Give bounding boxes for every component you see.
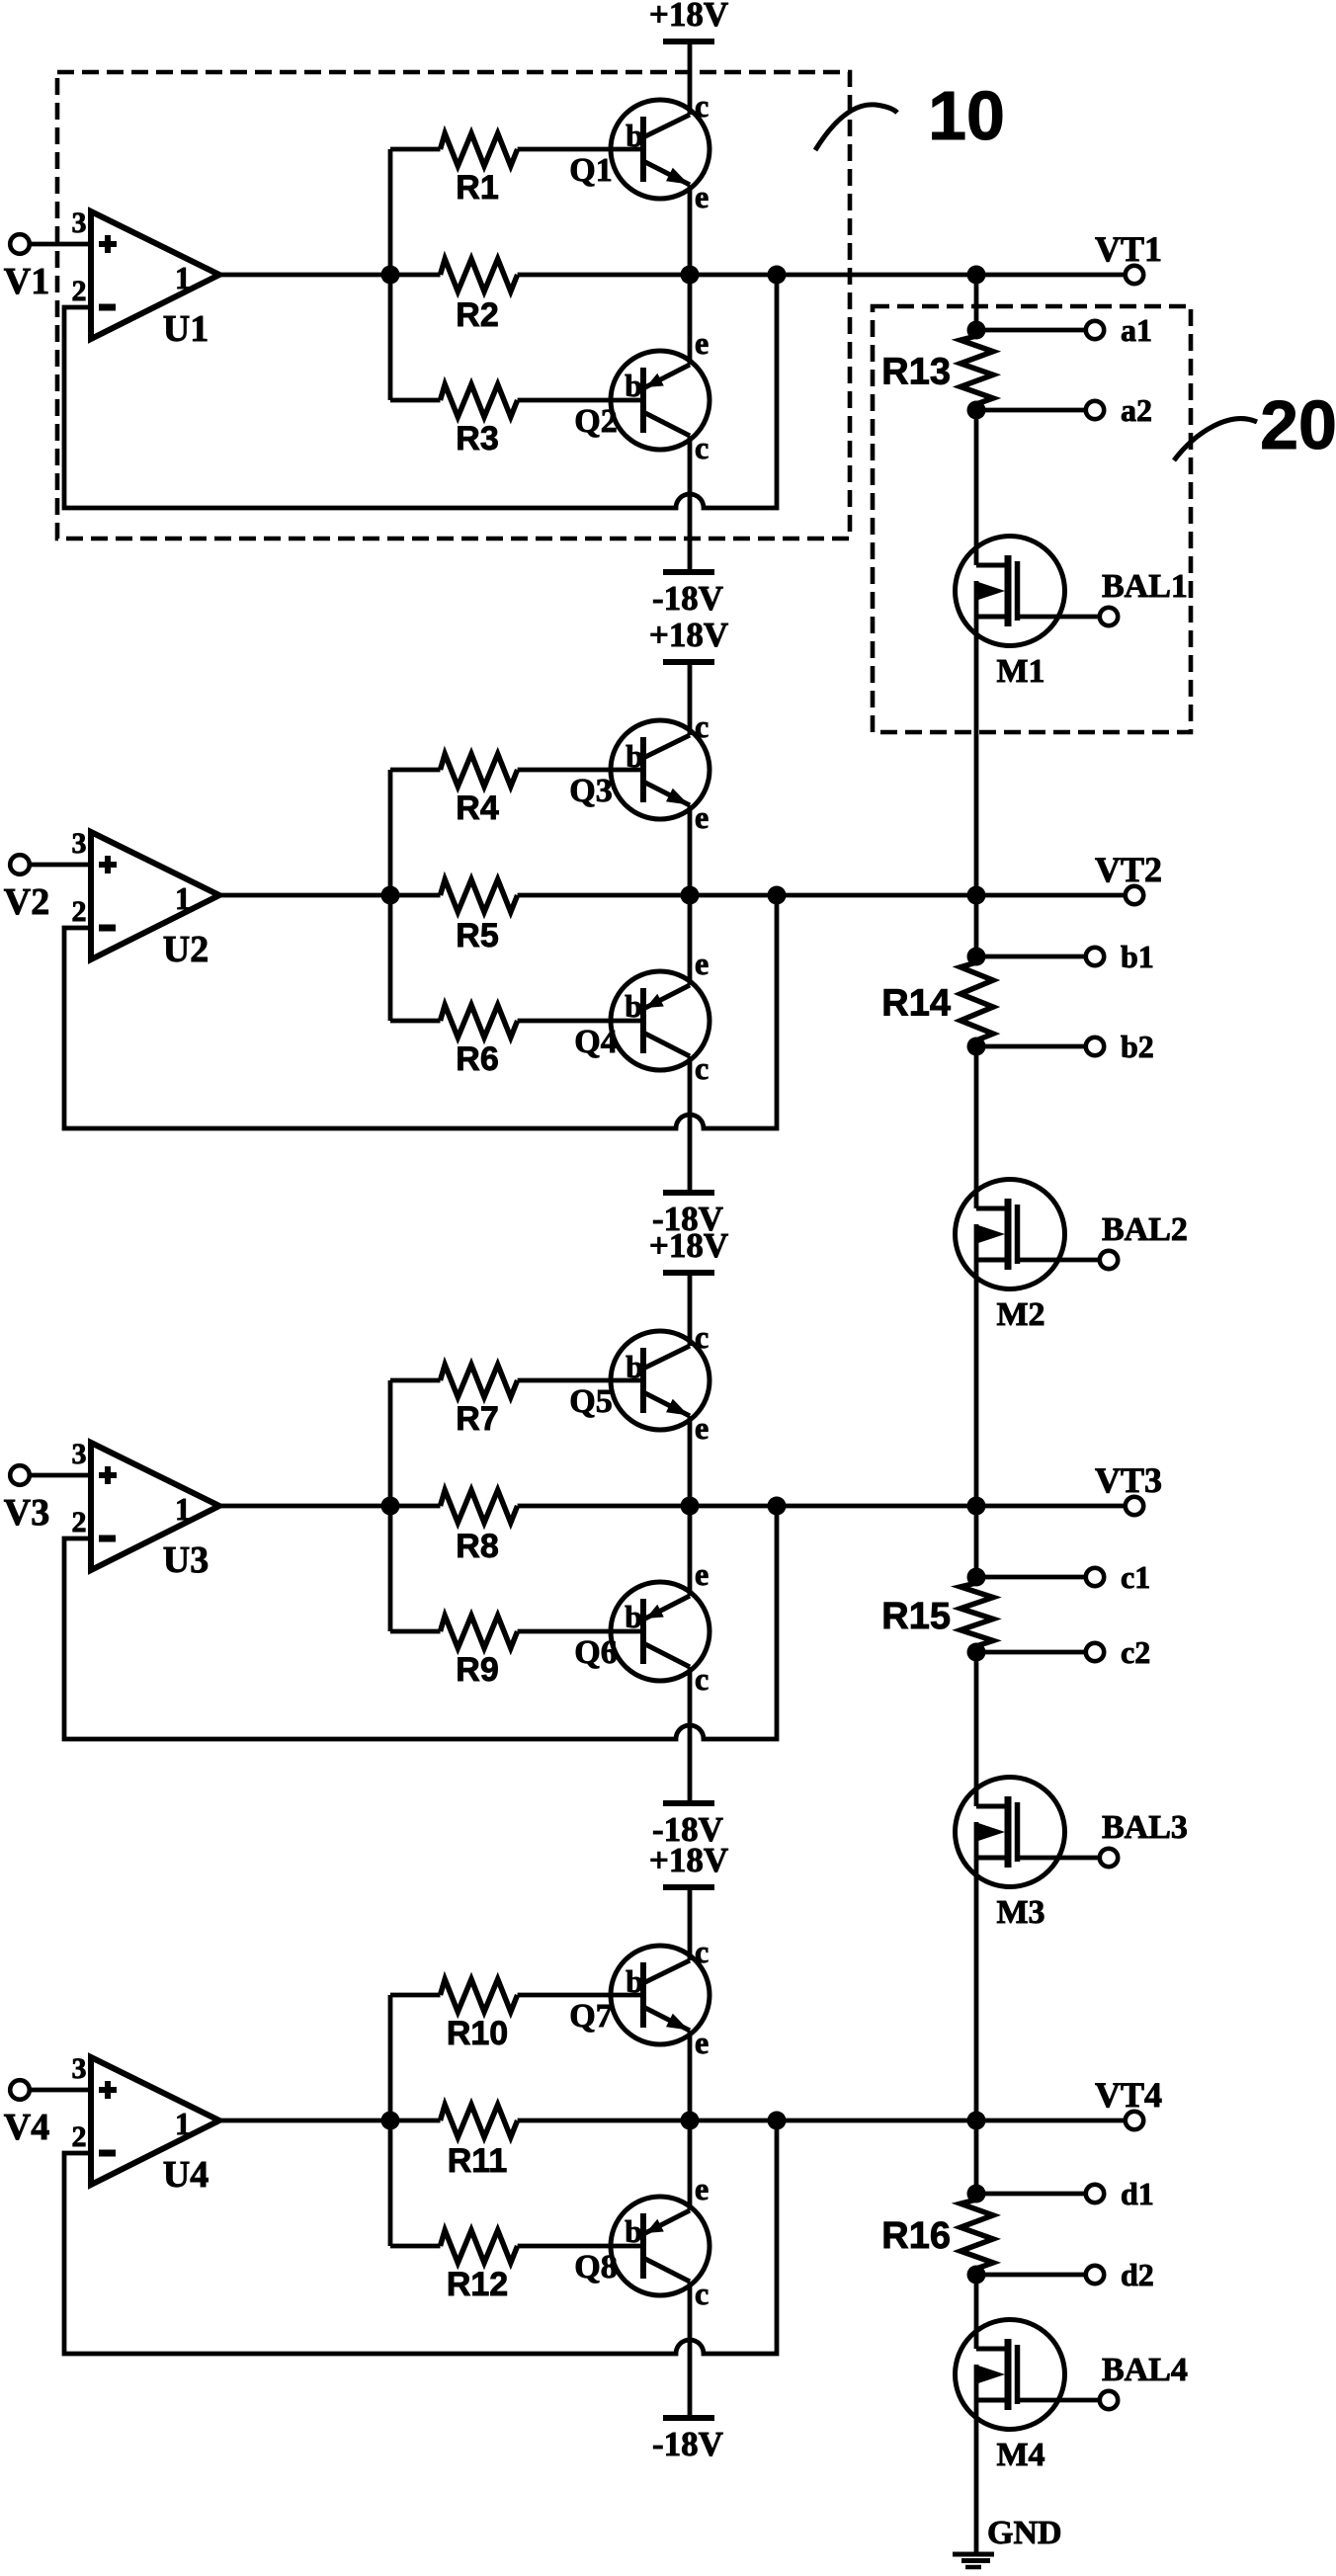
MOSFET M3 label <box>996 1894 1044 1931</box>
wire <box>219 273 441 278</box>
node GND label <box>987 2515 1062 2551</box>
MOSFET M4 <box>956 2320 1101 2430</box>
svg-text:+18V: +18V <box>649 616 728 654</box>
svg-text:M1: M1 <box>996 653 1044 690</box>
svg-text:U4: U4 <box>163 2154 209 2196</box>
wire <box>688 1416 693 1506</box>
svg-text:c: c <box>695 88 709 124</box>
wire feedback <box>64 1506 777 1739</box>
junction <box>381 266 400 285</box>
terminal d1 label <box>1121 2176 1154 2211</box>
wire <box>974 2400 979 2554</box>
svg-text:R12: R12 <box>447 2266 508 2303</box>
terminal BAL3 <box>1100 1849 1118 1867</box>
svg-text:b: b <box>625 988 642 1024</box>
svg-text:BAL1: BAL1 <box>1102 568 1188 605</box>
MOSFET M3 <box>956 1778 1101 1887</box>
label b <box>626 738 643 774</box>
svg-text:R1: R1 <box>456 169 498 207</box>
pin 3 label <box>72 827 87 860</box>
resistor R9 <box>390 1616 643 1689</box>
svg-text:VT2: VT2 <box>1095 850 1162 889</box>
op-amp U3 <box>91 1443 219 1570</box>
terminal c1 label <box>1121 1559 1150 1595</box>
MOSFET M1 <box>956 537 1101 646</box>
wire <box>219 2119 441 2123</box>
transistor Q2 label <box>574 403 617 440</box>
op-amp U3 label <box>163 1539 209 1581</box>
junction <box>967 2185 986 2203</box>
junction <box>768 886 787 905</box>
svg-text:Q1: Q1 <box>569 152 612 189</box>
transistor Q5 <box>611 1331 710 1430</box>
terminal BAL1 label <box>1102 568 1188 605</box>
power -18V <box>652 572 723 618</box>
wire <box>688 2031 693 2120</box>
label b <box>626 1963 643 1999</box>
svg-text:b2: b2 <box>1121 1029 1154 1064</box>
pin 1 label <box>175 1491 191 1527</box>
pin 2 label <box>72 1506 87 1538</box>
resistor R12 <box>390 2230 643 2303</box>
label 10 <box>815 77 1005 154</box>
terminal d2 <box>976 2266 1104 2284</box>
terminal a1 label <box>1121 312 1152 348</box>
label c <box>695 88 709 124</box>
svg-text:b: b <box>626 1963 643 1999</box>
svg-text:Q3: Q3 <box>569 773 612 809</box>
junction <box>381 1497 400 1516</box>
MOSFET M2 <box>956 1180 1101 1289</box>
node V1 input terminal <box>10 234 30 254</box>
power +18V <box>649 616 728 662</box>
svg-text:e: e <box>695 799 709 835</box>
terminal VT4 <box>1126 2112 1143 2129</box>
junction <box>681 266 700 285</box>
resistor R7 <box>390 1365 643 1438</box>
node V1 label <box>4 261 49 302</box>
terminal d2 label <box>1121 2257 1154 2292</box>
wire <box>974 1046 979 1208</box>
terminal a1 <box>976 321 1104 339</box>
transistor Q7 label <box>569 1998 612 2035</box>
wire <box>688 805 693 895</box>
svg-text:+18V: +18V <box>649 0 728 34</box>
dashed box 20 <box>873 306 1191 732</box>
transistor Q1 label <box>569 152 612 189</box>
wire feedback <box>64 2120 777 2354</box>
label c <box>695 1661 709 1697</box>
svg-text:U1: U1 <box>163 308 209 350</box>
svg-text:V2: V2 <box>4 881 49 923</box>
op-amp U2 <box>91 832 219 959</box>
svg-text:c: c <box>695 1934 709 1969</box>
svg-text:R14: R14 <box>881 983 951 1025</box>
node V2 label <box>4 881 49 923</box>
svg-text:+18V: +18V <box>649 1226 728 1265</box>
svg-text:R10: R10 <box>447 2015 508 2052</box>
pin 1 label <box>175 2106 191 2141</box>
pin 2 label <box>72 895 87 928</box>
wire <box>688 1056 693 1193</box>
MOSFET M2 label <box>996 1296 1044 1333</box>
svg-text:c: c <box>695 1661 709 1697</box>
label b <box>625 2213 642 2249</box>
resistor R10 <box>390 1979 643 2052</box>
wire <box>388 770 393 1021</box>
label e <box>695 946 709 981</box>
svg-text:e: e <box>695 179 709 214</box>
wire <box>388 149 393 400</box>
junction <box>967 401 986 420</box>
power -18V <box>652 1803 723 1849</box>
dashed box 10 <box>57 72 850 539</box>
transistor Q3 label <box>569 773 612 809</box>
resistor R14 <box>881 956 993 1046</box>
pin 2 label <box>72 275 87 307</box>
label c <box>695 1319 709 1355</box>
terminal BAL4 <box>1100 2391 1118 2409</box>
wire <box>688 42 693 115</box>
wire <box>688 436 693 572</box>
pin 3 label <box>72 2052 87 2085</box>
svg-text:R11: R11 <box>448 2142 508 2180</box>
wire <box>974 1506 979 1577</box>
svg-text:Q4: Q4 <box>574 1024 617 1060</box>
svg-text:2: 2 <box>72 2120 87 2153</box>
node V3 label <box>4 1492 49 1534</box>
svg-text:BAL2: BAL2 <box>1102 1211 1188 1248</box>
terminal d1 <box>976 2185 1104 2202</box>
ground <box>953 2554 994 2567</box>
op-amp U4 <box>91 2057 219 2185</box>
svg-text:d2: d2 <box>1121 2257 1154 2292</box>
pin 3 label <box>72 1438 87 1470</box>
wire <box>688 662 693 735</box>
svg-text:Q8: Q8 <box>574 2249 617 2285</box>
label e <box>695 179 709 214</box>
junction <box>681 1497 700 1516</box>
svg-text:b: b <box>626 738 643 774</box>
transistor Q5 label <box>569 1383 612 1420</box>
op-amp U1 <box>91 211 219 339</box>
junction <box>681 2112 700 2130</box>
wire <box>688 895 693 985</box>
wire <box>688 1273 693 1346</box>
svg-text:Q2: Q2 <box>574 403 617 440</box>
svg-text:R7: R7 <box>456 1400 498 1438</box>
pin 2 label <box>72 2120 87 2153</box>
svg-text:10: 10 <box>928 77 1005 154</box>
svg-text:b: b <box>626 118 643 153</box>
wire <box>688 2282 693 2418</box>
label 20 <box>1174 386 1336 463</box>
terminal VT3 <box>1126 1497 1143 1515</box>
op-amp U4 label <box>163 2154 209 2196</box>
junction <box>967 2266 986 2285</box>
svg-text:R5: R5 <box>456 917 498 955</box>
pin 1 label <box>175 880 191 916</box>
label b <box>626 1349 643 1384</box>
label c <box>695 1934 709 1969</box>
junction <box>967 1568 986 1587</box>
wire <box>688 185 693 275</box>
svg-text:2: 2 <box>72 275 87 307</box>
terminal BAL4 label <box>1102 2352 1188 2388</box>
label c <box>695 2276 709 2311</box>
terminal c1 <box>976 1568 1104 1586</box>
transistor Q4 <box>611 971 710 1070</box>
svg-text:c2: c2 <box>1121 1634 1150 1670</box>
terminal b2 label <box>1121 1029 1154 1064</box>
terminal c2 label <box>1121 1634 1150 1670</box>
pin 1 label <box>175 260 191 295</box>
label b <box>625 1599 642 1634</box>
power -18V <box>652 1193 723 1238</box>
wire <box>388 1380 393 1631</box>
svg-text:U3: U3 <box>163 1539 209 1581</box>
svg-text:U2: U2 <box>163 929 209 970</box>
svg-text:c: c <box>695 2276 709 2311</box>
wire <box>974 1260 979 1506</box>
node V4 label <box>4 2107 49 2148</box>
svg-text:V3: V3 <box>4 1492 49 1534</box>
svg-text:2: 2 <box>72 895 87 928</box>
resistor R4 <box>390 754 643 827</box>
node V3 input terminal <box>10 1465 30 1485</box>
wire feedback <box>64 895 777 1128</box>
junction <box>967 266 986 285</box>
label c <box>695 708 709 744</box>
svg-text:3: 3 <box>72 1438 87 1470</box>
transistor Q3 <box>611 720 710 819</box>
wire <box>974 1652 979 1806</box>
svg-text:2: 2 <box>72 1506 87 1538</box>
svg-text:1: 1 <box>175 1491 191 1527</box>
wire <box>30 863 91 868</box>
wire <box>974 410 979 565</box>
svg-text:3: 3 <box>72 827 87 860</box>
svg-text:1: 1 <box>175 2106 191 2141</box>
terminal b1 <box>976 948 1104 965</box>
svg-text:GND: GND <box>987 2515 1062 2551</box>
label b <box>626 118 643 153</box>
power +18V <box>649 1841 728 1887</box>
pin 3 label <box>72 207 87 239</box>
svg-text:R6: R6 <box>456 1040 498 1078</box>
wire <box>688 275 693 365</box>
terminal VT3 label <box>1095 1460 1162 1500</box>
wire <box>688 2120 693 2210</box>
label e <box>695 2025 709 2060</box>
wire <box>219 893 441 898</box>
label e <box>695 325 709 361</box>
svg-text:c: c <box>695 1319 709 1355</box>
svg-text:R15: R15 <box>881 1596 951 1637</box>
wire <box>688 1887 693 1960</box>
svg-text:b: b <box>625 1599 642 1634</box>
junction <box>381 2112 400 2130</box>
wire <box>974 617 979 895</box>
terminal b1 label <box>1121 939 1154 974</box>
svg-text:3: 3 <box>72 2052 87 2085</box>
label c <box>695 430 709 465</box>
junction <box>381 886 400 905</box>
label e <box>695 1556 709 1592</box>
svg-text:-18V: -18V <box>652 579 723 618</box>
resistor R8 <box>441 1490 518 1565</box>
svg-text:c: c <box>695 1050 709 1086</box>
transistor Q7 <box>611 1946 710 2044</box>
wire <box>219 1504 441 1509</box>
terminal VT2 label <box>1095 850 1162 889</box>
label c <box>695 1050 709 1086</box>
junction <box>967 1643 986 1662</box>
wire <box>518 2119 1126 2123</box>
wire <box>30 2088 91 2093</box>
op-amp U2 label <box>163 929 209 970</box>
transistor Q1 <box>611 100 710 199</box>
resistor R6 <box>390 1005 643 1078</box>
label b <box>625 988 642 1024</box>
resistor R2 <box>441 259 518 334</box>
svg-text:a2: a2 <box>1121 392 1152 428</box>
wire <box>974 895 979 956</box>
resistor R1 <box>390 133 643 207</box>
svg-text:R2: R2 <box>456 296 498 334</box>
svg-text:1: 1 <box>175 880 191 916</box>
terminal BAL3 label <box>1102 1809 1188 1846</box>
junction <box>967 886 986 905</box>
svg-text:1: 1 <box>175 260 191 295</box>
wire <box>974 1858 979 2120</box>
label e <box>695 2171 709 2206</box>
terminal a2 <box>976 401 1104 419</box>
svg-text:R4: R4 <box>456 789 499 827</box>
svg-text:V1: V1 <box>4 261 49 302</box>
transistor Q4 label <box>574 1024 617 1060</box>
svg-text:c: c <box>695 430 709 465</box>
junction <box>967 1497 986 1516</box>
wire <box>30 242 91 247</box>
terminal VT2 <box>1126 886 1143 904</box>
power -18V <box>652 2418 723 2463</box>
svg-text:BAL3: BAL3 <box>1102 1809 1188 1846</box>
MOSFET M1 label <box>996 653 1044 690</box>
power +18V <box>649 1226 728 1273</box>
svg-text:VT4: VT4 <box>1095 2075 1162 2115</box>
svg-text:e: e <box>695 2171 709 2206</box>
wire feedback <box>64 275 777 508</box>
wire <box>518 1504 1126 1509</box>
terminal b2 <box>976 1038 1104 1055</box>
svg-text:e: e <box>695 325 709 361</box>
transistor Q8 label <box>574 2249 617 2285</box>
svg-text:V4: V4 <box>4 2107 49 2148</box>
label e <box>695 1410 709 1446</box>
svg-text:e: e <box>695 2025 709 2060</box>
svg-text:Q7: Q7 <box>569 1998 612 2035</box>
terminal c2 <box>976 1643 1104 1661</box>
junction <box>967 948 986 966</box>
svg-text:M3: M3 <box>996 1894 1044 1931</box>
svg-text:c: c <box>695 708 709 744</box>
svg-text:3: 3 <box>72 207 87 239</box>
junction <box>967 1038 986 1056</box>
svg-text:Q6: Q6 <box>574 1634 617 1671</box>
transistor Q8 <box>611 2197 710 2295</box>
svg-text:R8: R8 <box>456 1528 498 1565</box>
svg-text:b: b <box>625 2213 642 2249</box>
op-amp U1 label <box>163 308 209 350</box>
junction <box>681 886 700 905</box>
terminal a2 label <box>1121 392 1152 428</box>
wire <box>974 2120 979 2194</box>
svg-text:c1: c1 <box>1121 1559 1150 1595</box>
svg-text:a1: a1 <box>1121 312 1152 348</box>
terminal BAL2 label <box>1102 1211 1188 1248</box>
svg-text:M2: M2 <box>996 1296 1044 1333</box>
svg-text:e: e <box>695 1410 709 1446</box>
junction <box>967 2112 986 2130</box>
junction <box>967 321 986 340</box>
svg-text:BAL4: BAL4 <box>1102 2352 1188 2388</box>
MOSFET M4 label <box>996 2437 1044 2473</box>
label b <box>625 368 642 403</box>
terminal VT1 <box>1126 266 1143 284</box>
transistor Q2 <box>611 351 710 450</box>
svg-text:R16: R16 <box>881 2215 951 2257</box>
svg-text:M4: M4 <box>996 2437 1044 2473</box>
junction <box>768 1497 787 1516</box>
wire <box>30 1473 91 1478</box>
svg-text:b1: b1 <box>1121 939 1154 974</box>
terminal VT1 label <box>1095 229 1162 269</box>
wire <box>688 1667 693 1803</box>
svg-text:VT1: VT1 <box>1095 229 1162 269</box>
svg-text:R13: R13 <box>881 352 951 393</box>
svg-text:d1: d1 <box>1121 2176 1154 2211</box>
svg-text:R9: R9 <box>456 1651 498 1689</box>
junction <box>768 266 787 285</box>
wire <box>518 273 1126 278</box>
svg-text:R3: R3 <box>456 420 498 457</box>
power +18V <box>649 0 728 42</box>
svg-text:VT3: VT3 <box>1095 1460 1162 1500</box>
svg-text:20: 20 <box>1260 386 1336 463</box>
svg-text:+18V: +18V <box>649 1841 728 1879</box>
node V2 input terminal <box>10 855 30 874</box>
node V4 input terminal <box>10 2080 30 2100</box>
wire <box>974 2275 979 2349</box>
junction <box>768 2112 787 2130</box>
svg-text:Q5: Q5 <box>569 1383 612 1420</box>
terminal VT4 label <box>1095 2075 1162 2115</box>
terminal BAL2 <box>1100 1251 1118 1269</box>
resistor R13 <box>881 330 993 410</box>
svg-text:b: b <box>625 368 642 403</box>
resistor R5 <box>441 879 518 955</box>
resistor R3 <box>390 384 643 457</box>
transistor Q6 <box>611 1582 710 1681</box>
svg-text:-18V: -18V <box>652 2425 723 2463</box>
wire <box>518 893 1126 898</box>
svg-text:b: b <box>626 1349 643 1384</box>
wire <box>388 1995 393 2246</box>
terminal BAL1 <box>1100 608 1118 625</box>
wire <box>688 1506 693 1596</box>
resistor R16 <box>881 2194 993 2275</box>
